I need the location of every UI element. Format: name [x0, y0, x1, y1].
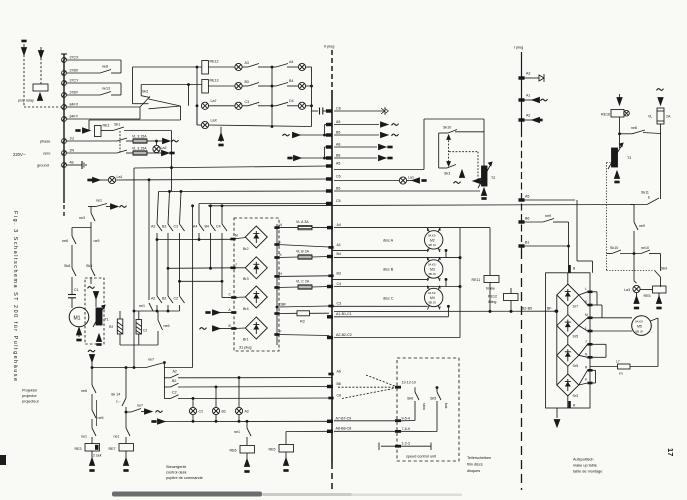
wire chain lower ne6	[81, 368, 96, 411]
svg-text:C4: C4	[216, 225, 221, 229]
svg-text:La7: La7	[211, 99, 217, 103]
switch column C3/C2	[174, 192, 185, 312]
wire M5 feed top	[593, 318, 633, 331]
svg-text:L: L	[280, 240, 282, 244]
lamp La7	[201, 99, 235, 109]
svg-text:A: A	[229, 308, 232, 312]
wire ne chain top	[79, 207, 95, 269]
lamp B4 with switch	[272, 79, 312, 90]
terminal 2N zero	[43, 149, 74, 156]
lamp B3 with switch	[235, 80, 272, 90]
varistor FY	[590, 360, 658, 377]
svg-text:A2: A2	[245, 410, 249, 414]
svg-text:ne5: ne5	[94, 239, 100, 243]
motor M1	[69, 303, 89, 341]
relay RE6	[230, 446, 255, 473]
label Steuergeraet	[166, 465, 203, 480]
svg-text:ne1: ne1	[234, 430, 240, 434]
svg-text:9B J9: 9B J9	[636, 329, 644, 333]
motor M5	[632, 316, 652, 336]
bus tick A7-B7-C9	[327, 417, 351, 423]
switch Sk2	[140, 90, 150, 108]
svg-text:C5: C5	[336, 199, 341, 203]
svg-text:R2: R2	[109, 325, 113, 329]
relay RE12	[202, 60, 235, 75]
svg-text:ne13: ne13	[102, 87, 110, 91]
arrow stub tilde into pin B	[200, 324, 246, 331]
svg-text:RE7: RE7	[109, 447, 116, 451]
svg-text:220V∼: 220V∼	[13, 152, 26, 157]
pin labels right column	[585, 287, 588, 382]
bus tick A1	[329, 243, 427, 250]
svg-text:ne6: ne6	[164, 324, 170, 328]
svg-text:RE12: RE12	[488, 295, 497, 299]
wire T2 bottom arrow	[481, 186, 486, 199]
box tick B top	[568, 265, 576, 273]
svg-text:17: 17	[666, 448, 675, 456]
motor M3	[425, 257, 443, 281]
svg-text:1-2-3: 1-2-3	[402, 442, 410, 446]
svg-text:BF: BF	[547, 307, 552, 311]
svg-text:LaX: LaX	[211, 119, 218, 123]
svg-text:Steuergerät: Steuergerät	[166, 465, 187, 469]
wire dashed row Sk9	[607, 254, 668, 288]
switch Sk14	[111, 367, 127, 429]
contact ne1 lower	[81, 428, 96, 444]
svg-text:J: J	[585, 340, 587, 344]
svg-text:La1: La1	[408, 176, 414, 180]
wire phase row with switch Sk4	[67, 138, 134, 141]
bridge Br1	[243, 317, 267, 342]
svg-text:B4: B4	[205, 225, 209, 229]
svg-text:M: M	[585, 313, 588, 317]
wire Sr left vertex vertical	[556, 295, 558, 385]
svg-text:lifting: lifting	[488, 300, 496, 304]
svg-text:A3: A3	[526, 72, 530, 76]
svg-text:B5: B5	[336, 187, 340, 191]
svg-text:B2: B2	[162, 297, 166, 301]
wire bottom M1 zone tilde	[88, 350, 193, 368]
svg-text:A3: A3	[245, 61, 249, 65]
terminal 4E ground	[37, 161, 74, 168]
svg-text:slow: slow	[422, 403, 426, 410]
svg-text:T1: T1	[105, 318, 109, 322]
svg-text:C3: C3	[245, 100, 250, 104]
svg-text:Sr7: Sr7	[573, 305, 579, 309]
dashed box 31 plug	[234, 218, 279, 351]
svg-text:A2-B2-C2: A2-B2-C2	[336, 333, 352, 337]
terminal 37BY	[62, 91, 79, 98]
wire DBF long to right	[277, 306, 329, 307]
svg-text:0A K0: 0A K0	[635, 320, 643, 324]
svg-text:2A: 2A	[666, 115, 671, 119]
svg-text:A4: A4	[337, 223, 341, 227]
wire to Br4 C pin	[179, 280, 246, 298]
terminal 7-6-9	[334, 427, 437, 433]
wire H row to bus	[277, 275, 329, 278]
bus tick A2	[519, 114, 542, 123]
wire stub block into B8	[288, 155, 325, 160]
svg-text:zero: zero	[43, 152, 50, 156]
bus tick B5 long row	[159, 187, 341, 193]
wire M4 chain	[447, 305, 449, 317]
bus tick B1 row246	[519, 241, 569, 248]
wire long row 205	[208, 205, 634, 207]
svg-text:B4: B4	[337, 252, 341, 256]
terminal 37CX	[62, 56, 79, 63]
svg-text:R3: R3	[300, 320, 305, 324]
wire to Br2 M pin	[156, 234, 245, 241]
svg-text:ne7: ne7	[148, 358, 154, 362]
wire M5 right loop	[651, 318, 659, 367]
wire lamp feeder column	[163, 363, 165, 399]
svg-text:C1: C1	[74, 288, 79, 292]
svg-text:M2: M2	[430, 239, 435, 243]
contact ne1 on rail	[139, 303, 153, 311]
svg-text:ne3: ne3	[79, 216, 85, 220]
svg-text:1↔: 1↔	[116, 400, 121, 404]
svg-text:projecteur: projecteur	[22, 400, 40, 404]
wire bracket A5-B5	[324, 125, 330, 137]
svg-text:9-5-4: 9-5-4	[402, 417, 410, 421]
contact ne5 lower	[92, 400, 104, 428]
contact ne8 right	[620, 126, 661, 134]
svg-text:RE3: RE3	[75, 447, 82, 451]
svg-text:VL 3.15A: VL 3.15A	[132, 147, 147, 151]
switch column B4	[205, 206, 216, 268]
svg-text:RE11: RE11	[472, 278, 481, 282]
svg-text:0A K0: 0A K0	[428, 263, 436, 267]
svg-text:C: C	[229, 293, 232, 297]
svg-text:Projektor: Projektor	[22, 389, 38, 393]
svg-text:B6: B6	[337, 382, 341, 386]
bus tick A2-B2-C2	[327, 333, 460, 339]
svg-text:7-6-9: 7-6-9	[402, 427, 410, 431]
motor M4	[425, 286, 443, 310]
svg-text:II plug: II plug	[324, 45, 334, 49]
motor M2	[425, 228, 443, 252]
wire feed top 1	[133, 66, 202, 125]
svg-text:FY: FY	[619, 372, 624, 376]
svg-text:13-12-10: 13-12-10	[402, 381, 416, 385]
wire junction 37CX-37BX	[120, 60, 122, 73]
wire Br pins column	[267, 224, 277, 345]
wire rail 311	[133, 310, 180, 312]
svg-text:N: N	[585, 353, 588, 357]
wire row B2 lamps	[164, 379, 332, 388]
switch Sk8	[64, 264, 76, 293]
wire bend down to ne9b	[630, 205, 645, 254]
pin R3 resistor row	[275, 311, 329, 324]
transformer T3	[608, 143, 631, 183]
svg-text:RE6: RE6	[230, 449, 237, 453]
svg-text:VL 3.15A: VL 3.15A	[132, 135, 147, 139]
svg-text:Sk1: Sk1	[114, 123, 120, 127]
bridge Sr6	[557, 344, 579, 368]
svg-text:film discs: film discs	[467, 463, 483, 467]
svg-text:84FX: 84FX	[70, 103, 79, 107]
wire tilde arrow into T1	[88, 287, 99, 307]
wire box bottom arrow	[554, 408, 560, 427]
wire right column lamps	[311, 67, 319, 127]
wire row 37CX	[67, 59, 122, 61]
arrowheads dashed link	[447, 135, 451, 166]
svg-text:C2: C2	[172, 391, 177, 395]
svg-text:C3: C3	[174, 225, 179, 229]
terminal 37CY	[62, 79, 79, 86]
wire row B5 extension right	[334, 190, 480, 192]
svg-text:B2-B5: B2-B5	[522, 307, 532, 311]
svg-text:L: L	[585, 287, 587, 291]
svg-text:ground: ground	[37, 164, 49, 168]
svg-text:T3: T3	[627, 156, 631, 160]
wire BF long line right	[334, 307, 557, 313]
svg-text:A8: A8	[336, 143, 340, 147]
box Sr block	[546, 273, 590, 408]
svg-text:A2: A2	[151, 297, 155, 301]
svg-text:2N: 2N	[70, 149, 75, 153]
pin N fuse VL A 3A	[256, 220, 329, 230]
svg-text:ne10: ne10	[641, 246, 649, 250]
svg-text:Aufspultisch: Aufspultisch	[573, 458, 593, 462]
svg-text:0A K0: 0A K0	[428, 291, 436, 295]
wire Sr pin leads	[579, 292, 588, 385]
bus tick A6	[329, 370, 341, 375]
svg-text:C8: C8	[336, 107, 341, 111]
svg-text:Teilerscheiben: Teilerscheiben	[467, 456, 491, 460]
terminal 1-2-3 ground	[377, 442, 433, 450]
wire stub tilde into B5	[283, 132, 325, 137]
terminal 84FX	[62, 103, 79, 110]
svg-text:VL C 2A: VL C 2A	[296, 280, 310, 284]
wire dashed fan to 13-12-10	[338, 375, 396, 399]
svg-text:B: B	[573, 267, 576, 271]
wire collector row 421	[152, 419, 332, 424]
svg-text:VL A 3A: VL A 3A	[296, 220, 309, 224]
svg-text:pupitre de commande: pupitre de commande	[166, 476, 203, 480]
svg-text:ne1: ne1	[96, 199, 102, 203]
svg-text:projector: projector	[22, 394, 38, 398]
wire tilde arrow Sk3	[454, 170, 465, 183]
wire junction column	[271, 66, 273, 128]
svg-text:A5: A5	[525, 195, 529, 199]
transformer T1	[93, 305, 109, 345]
svg-text:T2: T2	[491, 176, 495, 180]
svg-text:C2: C2	[174, 297, 179, 301]
wire junction 84F	[139, 107, 141, 119]
svg-text:Sk8: Sk8	[64, 264, 70, 268]
switch Sk3 right	[439, 165, 456, 176]
svg-text:37CX: 37CX	[70, 56, 80, 60]
svg-text:RE5: RE5	[269, 448, 276, 452]
svg-text:C6: C6	[336, 175, 341, 179]
switch Sk11	[630, 191, 659, 205]
svg-text:disques: disques	[467, 469, 480, 473]
svg-text:M1: M1	[74, 316, 81, 322]
svg-text:Br2: Br2	[243, 247, 249, 251]
svg-text:Sk10: Sk10	[443, 126, 451, 130]
svg-text:La3: La3	[624, 288, 630, 292]
svg-text:37BX: 37BX	[70, 69, 79, 73]
wire row A5 extension right to Sk10 box	[334, 169, 424, 171]
terminal 1U phase	[40, 137, 74, 144]
svg-text:R: R	[585, 366, 588, 370]
svg-text:Sk10: Sk10	[610, 246, 618, 250]
bus tick B4	[327, 252, 461, 259]
svg-text:A8-B8-C8: A8-B8-C8	[336, 427, 352, 431]
svg-text:I plug: I plug	[514, 46, 523, 50]
wire row 37CY	[67, 82, 122, 84]
fuse VL 3.15A phase	[132, 135, 179, 144]
svg-text:ne1: ne1	[139, 304, 145, 308]
bus tick B8	[326, 154, 392, 161]
bus tick C6 long row lamp	[148, 175, 341, 301]
bus tick B5 row2	[326, 131, 398, 138]
wire feed top 2	[141, 84, 202, 106]
wire box Sk10 outer	[424, 119, 484, 170]
svg-text:Sr5: Sr5	[573, 364, 579, 368]
switch Sk6 slow	[407, 387, 426, 420]
wire right collector vertical	[459, 228, 461, 338]
wire rail 345	[120, 344, 158, 346]
svg-text:RE1: RE1	[103, 124, 110, 128]
wire dashed to T2	[449, 152, 478, 181]
wire Sk2 wedge	[89, 99, 181, 131]
svg-text:ne6: ne6	[81, 389, 87, 393]
relay RE1	[76, 124, 110, 137]
switch column C4	[216, 206, 227, 298]
svg-text:speed control unit: speed control unit	[406, 455, 437, 459]
svg-text:M3: M3	[430, 268, 435, 272]
wire Sr7 pins routing	[593, 292, 611, 318]
svg-text:31 plug: 31 plug	[239, 346, 251, 350]
svg-text:H: H	[280, 272, 283, 276]
label Aufspultisch	[573, 458, 602, 474]
wire row 37BX with contact ne8	[67, 65, 122, 74]
svg-text:A4: A4	[193, 225, 197, 229]
svg-text:Br3: Br3	[243, 277, 249, 281]
svg-text:A3: A3	[151, 225, 155, 229]
svg-text:A1-B1-C1: A1-B1-C1	[336, 312, 352, 316]
lamp La1 left	[88, 175, 332, 184]
bus tick C5 row	[199, 199, 341, 205]
pin ticks right column	[588, 291, 593, 385]
edge artifact left	[0, 455, 6, 465]
pin K fuse VL B 2A	[275, 250, 329, 260]
wire bracket A8-B8	[324, 147, 330, 159]
svg-text:Sk3: Sk3	[444, 172, 450, 176]
svg-text:proj. relay: proj. relay	[18, 99, 34, 103]
svg-text:Sk2: Sk2	[142, 90, 148, 94]
svg-text:37CY: 37CY	[70, 79, 80, 83]
wire dotted from T3	[607, 163, 612, 271]
pin H row B3	[275, 272, 283, 277]
bus tick A5 row200	[519, 195, 593, 273]
bus tick B6 row222 ne9	[519, 214, 570, 273]
wire B5 row end at T2	[480, 190, 484, 192]
bus tick B6	[327, 382, 341, 388]
wire dashed proj relay	[24, 55, 61, 107]
svg-text:A1: A1	[526, 94, 530, 98]
svg-text:A2: A2	[526, 114, 530, 118]
svg-text:D4: D4	[289, 99, 294, 103]
capacitor C1	[68, 288, 79, 308]
svg-text:C3: C3	[337, 302, 342, 306]
svg-text:Sr3: Sr3	[573, 394, 579, 398]
svg-text:J: J	[235, 263, 237, 267]
svg-text:RE13: RE13	[210, 79, 219, 83]
contact ne1 main	[88, 199, 127, 210]
wire row 84FX	[67, 106, 141, 108]
switch Sk1	[101, 123, 172, 131]
svg-text:L7: L7	[616, 360, 620, 364]
svg-text:A6: A6	[337, 370, 341, 374]
svg-text:84FY: 84FY	[70, 115, 79, 119]
svg-text:B3: B3	[245, 80, 249, 84]
relay RE5 lower	[269, 445, 294, 472]
svg-text:P: P	[585, 378, 587, 382]
svg-text:9B J9: 9B J9	[429, 272, 437, 276]
svg-text:RE5: RE5	[644, 294, 651, 298]
svg-text:A5: A5	[336, 162, 340, 166]
lamp La2	[153, 141, 167, 153]
wire BF into box	[546, 304, 557, 312]
svg-text:B3: B3	[337, 271, 341, 275]
capacitor C2 hatched	[136, 311, 147, 345]
svg-text:A2: A2	[173, 370, 177, 374]
bus tick B3	[329, 271, 428, 279]
svg-text:ne9: ne9	[639, 224, 645, 228]
terminal 9-5-4	[334, 417, 415, 423]
relay RE3 2sek	[75, 444, 102, 472]
svg-text:C4: C4	[337, 282, 342, 286]
wire dashed switch gang	[119, 131, 121, 152]
label Projektor	[22, 389, 40, 404]
bridge Br3	[243, 257, 267, 281]
box tick R bottom	[568, 401, 576, 408]
switch Sk5 fast	[430, 387, 448, 432]
bus tick A1-B1-C1	[327, 312, 448, 318]
svg-text:make up table: make up table	[573, 464, 597, 468]
terminal 13-12-10	[395, 381, 416, 389]
svg-text:DBF: DBF	[280, 303, 287, 307]
relay RE7	[109, 444, 134, 472]
lamp A4 with switch	[272, 60, 312, 71]
svg-text:phase: phase	[40, 140, 50, 144]
svg-text:fast: fast	[444, 403, 448, 409]
svg-text:Sk5: Sk5	[430, 397, 436, 401]
svg-text:9B J9: 9B J9	[429, 243, 437, 247]
svg-text:2 sek: 2 sek	[93, 454, 102, 458]
wire L row to bus	[277, 245, 329, 248]
bus tick A5 long row	[134, 131, 340, 368]
svg-text:1U: 1U	[70, 137, 75, 141]
label Teilerscheiben	[467, 456, 491, 473]
pin L row A1	[275, 240, 329, 248]
bridge Br4	[243, 286, 267, 311]
svg-text:9B J9: 9B J9	[429, 301, 437, 305]
svg-text:disc B: disc B	[383, 268, 394, 272]
pin fuse VL C 2A	[275, 280, 329, 290]
svg-text:B2: B2	[172, 379, 176, 383]
contact ne6 hanging	[158, 311, 170, 345]
svg-text:ne8: ne8	[631, 126, 637, 130]
bus tick A5 row1	[326, 120, 398, 127]
svg-text:M: M	[235, 234, 238, 238]
bus tick C6	[329, 394, 341, 399]
wire row 431	[286, 431, 332, 444]
svg-text:E: E	[648, 196, 651, 200]
